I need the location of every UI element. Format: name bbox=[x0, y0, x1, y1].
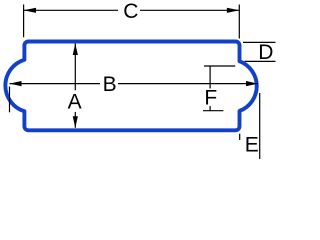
dimension C line (left segment) bbox=[24, 9, 118, 11]
svg-text:F: F bbox=[204, 87, 217, 110]
dimension C left extension line bbox=[23, 5, 25, 38]
dimension C right extension line bbox=[238, 5, 240, 39]
label F bbox=[204, 87, 217, 110]
dimension A up arrow bbox=[73, 44, 78, 56]
svg-text:A: A bbox=[68, 90, 82, 113]
dimension F bottom extension line bbox=[203, 110, 223, 112]
label B bbox=[103, 73, 117, 96]
dimension F top extension line bbox=[204, 65, 235, 67]
svg-text:D: D bbox=[258, 41, 273, 64]
dimension E left extension line bbox=[239, 134, 241, 140]
svg-text:B: B bbox=[103, 73, 117, 96]
dimension B line (right segment) bbox=[118, 83, 258, 85]
dimension B right arrow bbox=[246, 81, 258, 86]
label A bbox=[68, 90, 82, 113]
dimension C right arrow bbox=[227, 8, 239, 13]
dimension D upper extension line bbox=[243, 41, 276, 43]
svg-text:C: C bbox=[123, 0, 138, 23]
dimension A down arrow bbox=[73, 116, 78, 128]
dimension B left extension line bbox=[9, 87, 11, 113]
dimension C line (right segment) bbox=[140, 9, 239, 11]
dimension F vertical line (lower segment) bbox=[209, 106, 211, 111]
part outline (bumped rectangle body) bbox=[5, 42, 256, 131]
dimension B right extension line bbox=[259, 93, 261, 159]
dimension A line (lower segment) bbox=[74, 112, 76, 128]
dimension B left arrow bbox=[10, 81, 22, 86]
svg-text:E: E bbox=[245, 133, 259, 156]
label C bbox=[123, 0, 138, 23]
label D bbox=[258, 41, 273, 64]
dimension B line (left segment) bbox=[10, 83, 101, 85]
dimension F vertical line (upper segment) bbox=[209, 66, 211, 89]
dimension C left arrow bbox=[24, 8, 36, 13]
label E bbox=[245, 133, 259, 156]
dimension D lower extension line bbox=[245, 60, 276, 62]
dimension A line (upper segment) bbox=[74, 44, 76, 91]
